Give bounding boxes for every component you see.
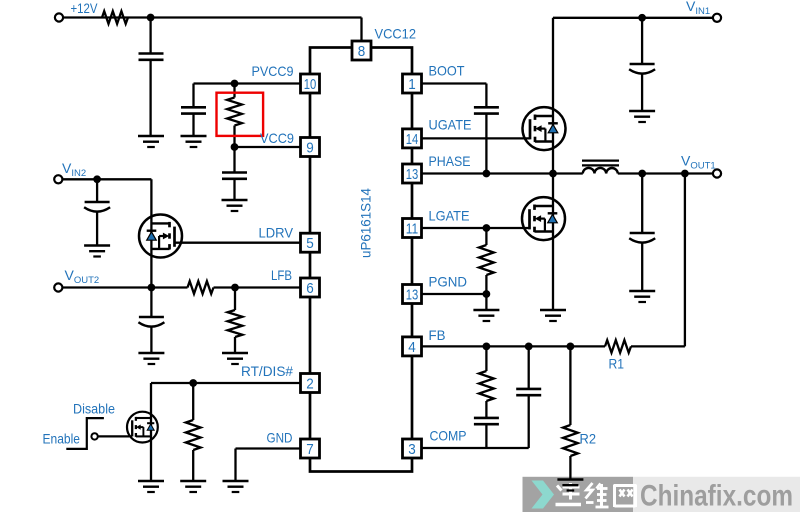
U1 pin 1 (BOOT) xyxy=(403,74,422,93)
U1 pin 6 (LFB) xyxy=(301,278,320,297)
node FB junction B xyxy=(525,343,533,351)
wire PHASE / VOUT1 net xyxy=(422,172,713,174)
ground below LFB divider xyxy=(222,352,248,355)
ground below C1 xyxy=(138,135,164,138)
node PHASE-BOOT junction xyxy=(483,170,491,178)
wire VOUT1 cap branch xyxy=(641,174,643,292)
node LFB divider junction xyxy=(231,284,239,292)
ground below C4 xyxy=(84,244,110,247)
svg-text:1: 1 xyxy=(408,76,416,93)
U1 pin 3 (COMP) xyxy=(403,439,422,458)
svg-text:PHASE: PHASE xyxy=(429,153,471,169)
transistor Q4 enable FET xyxy=(127,412,158,443)
ground below C2 xyxy=(181,135,207,138)
capacitor input C1 xyxy=(139,52,164,55)
terminal VOUT2 xyxy=(54,283,62,291)
wire Q2 drain-source vertical xyxy=(552,174,554,311)
svg-text:6: 6 xyxy=(306,280,314,297)
capacitor VOUT1 output C8 xyxy=(630,232,655,235)
svg-text:+12V: +12V xyxy=(71,0,99,16)
wire LDRV gate lead to pin 5 xyxy=(175,242,301,244)
wire PGND net xyxy=(422,294,487,310)
svg-text:R1: R1 xyxy=(609,356,625,372)
svg-text:PVCC9: PVCC9 xyxy=(252,63,294,79)
svg-text:8: 8 xyxy=(358,43,366,60)
terminal VIN2 xyxy=(54,175,62,183)
node RT/DIS# junction xyxy=(189,379,197,387)
svg-text:5: 5 xyxy=(306,235,314,252)
resistor +12V input xyxy=(102,11,128,24)
ground below Q4 xyxy=(138,480,164,483)
wire +12V rail to VCC12 pin 8 xyxy=(63,18,361,43)
ground below C5 xyxy=(138,352,164,355)
resistor R2 xyxy=(563,346,578,479)
U1 pin 14 (UGATE) xyxy=(403,129,422,148)
node VOUT1 cap junction xyxy=(638,170,646,178)
svg-text:13: 13 xyxy=(406,286,419,303)
svg-text:VCC12: VCC12 xyxy=(375,26,417,42)
resistor compensation series xyxy=(479,346,494,418)
node VIN2 junction xyxy=(93,175,101,183)
capacitor bootstrap C6 xyxy=(474,106,499,109)
resistor RT timing xyxy=(186,383,201,481)
node PGND junction xyxy=(483,290,491,298)
wire PVCC9 net xyxy=(194,84,301,137)
U1 pin 11 (LGATE) xyxy=(403,219,422,238)
op-amp-style controller IC U1 uP6161S14 body xyxy=(310,48,412,472)
svg-text:Disable: Disable xyxy=(73,401,115,417)
wire RT/DIS# net xyxy=(151,382,301,384)
wire UGATE gate lead xyxy=(422,137,531,139)
svg-text:COMP: COMP xyxy=(430,428,467,444)
U1 pin 13 (PGND) xyxy=(403,285,422,304)
svg-text:2: 2 xyxy=(306,375,314,392)
node FB junction C xyxy=(567,343,575,351)
transistor Q1 high-side FET xyxy=(523,107,566,150)
wire VOUT2 cap branch xyxy=(150,288,152,354)
resistor LGATE pulldown xyxy=(479,228,494,294)
wire VIN2 net xyxy=(62,179,151,245)
svg-text:LFB: LFB xyxy=(271,267,292,283)
capacitor PVCC9 bypass C2 xyxy=(181,106,206,109)
svg-text:UGATE: UGATE xyxy=(429,117,472,133)
node VCC9 junction xyxy=(231,143,239,151)
U1 pin 5 (LDRV) xyxy=(301,233,320,252)
capacitor compensation parallel C10 xyxy=(516,346,541,448)
svg-text:4: 4 xyxy=(408,339,416,356)
wire COMP net xyxy=(422,447,529,449)
svg-text:13: 13 xyxy=(406,166,419,183)
transistor Q3 linear pass FET xyxy=(139,215,182,258)
terminal VOUT1 xyxy=(713,169,721,177)
wire Q4 drain-source vertical xyxy=(150,383,152,481)
node FB junction A xyxy=(483,343,491,351)
switch Enable/Disable xyxy=(66,418,132,449)
U1 pin 9 (VCC9) xyxy=(301,138,320,157)
wire VCC9 net xyxy=(235,147,301,200)
svg-text:LGATE: LGATE xyxy=(429,208,470,224)
resistor R1 xyxy=(605,340,631,353)
node PHASE-FET junction xyxy=(549,170,557,178)
ground below R2 xyxy=(557,478,583,481)
U1 pin 4 (FB) xyxy=(403,337,422,356)
ground at Q2 source xyxy=(540,309,566,312)
svg-text:RT/DIS#: RT/DIS# xyxy=(241,363,293,379)
svg-text:PGND: PGND xyxy=(429,274,468,290)
wire LGATE gate lead xyxy=(422,227,530,229)
ground below C7 xyxy=(629,110,655,113)
resistor PVCC9-VCC9 (highlighted) xyxy=(227,84,242,148)
inductor L1 output choke xyxy=(582,161,619,174)
wire input cap branch xyxy=(149,18,151,137)
resistor LFB lower divider xyxy=(228,288,243,354)
svg-text:10: 10 xyxy=(304,76,317,93)
wire VOUT2 / LFB net xyxy=(62,286,300,288)
wire GND pin 7 to ground xyxy=(236,449,301,482)
node PVCC9 junction xyxy=(231,80,239,88)
wire VIN1 rail xyxy=(553,18,713,174)
ground at PGND xyxy=(473,309,499,312)
node VIN1 junction xyxy=(638,14,646,22)
svg-text:BOOT: BOOT xyxy=(429,63,465,79)
svg-text:LDRV: LDRV xyxy=(259,225,294,241)
terminal VIN1 xyxy=(713,14,721,22)
ground below C8 xyxy=(629,290,655,293)
terminal +12V xyxy=(55,13,63,21)
ground below RT resistor xyxy=(180,480,206,483)
svg-text:GND: GND xyxy=(267,430,293,446)
capacitor VCC9 bypass C3 xyxy=(222,171,247,174)
svg-text:Enable: Enable xyxy=(43,431,81,447)
wire BOOT net xyxy=(422,84,487,174)
svg-text:3: 3 xyxy=(408,441,416,458)
node VOUT2 junction at Q3 source xyxy=(148,284,156,292)
capacitor compensation series C9 xyxy=(474,418,499,448)
U1 pin 2 (RT/DIS#) xyxy=(301,374,320,393)
svg-text:11: 11 xyxy=(406,220,419,237)
resistor LFB feedback xyxy=(188,281,214,294)
highlight box (red) around resistor xyxy=(217,93,264,136)
U1 pin 8 (VCC12) xyxy=(352,41,371,60)
U1 pin 10 (PVCC9) xyxy=(301,74,320,93)
node VOUT1 feedback junction xyxy=(681,170,689,178)
svg-text:R2: R2 xyxy=(580,431,597,447)
node +12V junction xyxy=(147,14,155,22)
capacitor VIN1 input C7 xyxy=(630,63,655,66)
capacitor VIN2 input C4 xyxy=(85,201,110,204)
svg-text:FB: FB xyxy=(429,327,446,343)
ground at pin 7 xyxy=(223,480,249,483)
svg-text:Chinafix.com: Chinafix.com xyxy=(640,480,793,513)
U1 pin 13 (PHASE) xyxy=(403,164,422,183)
wire FB net xyxy=(422,174,685,347)
node LGATE junction xyxy=(483,224,491,232)
ground below C3 xyxy=(222,199,248,202)
svg-text:VCC9: VCC9 xyxy=(260,130,294,146)
svg-text:7: 7 xyxy=(306,441,314,458)
capacitor VOUT2 output C5 xyxy=(139,316,164,319)
svg-text:14: 14 xyxy=(406,131,419,148)
wire VIN1 cap branch xyxy=(641,18,643,111)
svg-text:uP6161S14: uP6161S14 xyxy=(358,188,374,258)
U1 pin 7 (GND) xyxy=(301,439,320,458)
svg-text:9: 9 xyxy=(306,139,314,156)
wire Q3 drain-source vertical xyxy=(150,179,152,287)
transistor Q2 low-side FET xyxy=(522,197,565,240)
